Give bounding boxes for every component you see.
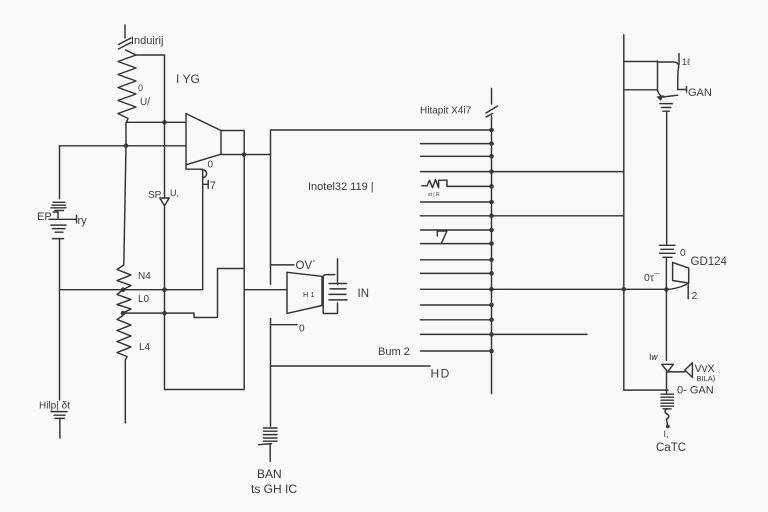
wire battery to ground bbox=[59, 239, 61, 400]
bus tick y=273.4 bbox=[421, 272, 492, 274]
svg-text:HD: HD bbox=[431, 367, 451, 381]
svg-text:0: 0 bbox=[208, 160, 214, 171]
svg-text:U/: U/ bbox=[140, 97, 150, 108]
wire U2 input segment y=290 bbox=[244, 289, 287, 291]
wire OV stub bbox=[271, 264, 295, 266]
bus tick y=319.8 bbox=[421, 319, 492, 321]
inductor L5 bottom middle bbox=[259, 428, 278, 462]
node junction dot bbox=[162, 120, 167, 125]
battery B1 bbox=[49, 202, 77, 238]
op-amp U1 bbox=[186, 114, 221, 165]
bus tick y=334.4 long right bbox=[421, 333, 588, 335]
ground under Q1 bbox=[660, 104, 673, 112]
wire staircase y=313 to box right edge bbox=[123, 269, 244, 318]
svg-text:ts GH IC: ts GH IC bbox=[251, 482, 297, 496]
bus tick y=351 bbox=[421, 350, 492, 352]
wire from R1 top peak to vertical feed bbox=[136, 55, 165, 122]
svg-text:N4: N4 bbox=[138, 271, 151, 282]
svg-text:SP: SP bbox=[148, 190, 162, 201]
wire horizontal y=122 to U1 input bbox=[127, 121, 187, 123]
bus tick y=259.8 bbox=[421, 259, 492, 261]
wire Q1 down to C2 bbox=[666, 112, 668, 245]
svg-text:IN: IN bbox=[358, 288, 370, 300]
slash 17 mark bbox=[437, 231, 447, 243]
wire C2 to node bbox=[665, 259, 667, 361]
svg-text:BAN: BAN bbox=[257, 467, 282, 481]
bus tick y=243.6 bbox=[421, 243, 492, 245]
bus tick y=143.6 bbox=[421, 143, 492, 145]
bus tick y=156.3 bbox=[421, 155, 492, 157]
svg-text:0- GAN: 0- GAN bbox=[677, 385, 714, 397]
svg-text:ry: ry bbox=[78, 215, 88, 227]
svg-text:0: 0 bbox=[680, 248, 686, 259]
pin lead with circle below U1 bbox=[186, 165, 208, 290]
transistor Q1 bbox=[658, 54, 687, 98]
svg-text:Induirij: Induirij bbox=[131, 35, 163, 47]
bus tick y=171.6 long to right section bbox=[421, 171, 624, 173]
node dot at x=623.8 on y=289 bbox=[622, 287, 627, 292]
wire horizontal y=290 bbox=[60, 289, 202, 291]
node junction dot bbox=[124, 144, 129, 149]
wire Q1 base feeds bbox=[624, 62, 658, 90]
waveform glyph W1 on tick y=186.4 bbox=[422, 180, 492, 188]
wire lower x=270.5 vertical bbox=[270, 319, 272, 427]
resistor R1 bbox=[118, 50, 136, 122]
wire HD line bbox=[271, 365, 431, 367]
wire feedback box bottom and right edge bbox=[165, 155, 245, 390]
node dots on bus bbox=[489, 128, 494, 354]
op-amp U2 bbox=[287, 272, 322, 313]
svg-text:0: 0 bbox=[299, 324, 305, 335]
wire D1 to speaker bbox=[668, 371, 685, 373]
svg-text:I𝑤: I𝑤 bbox=[649, 352, 659, 362]
capacitor C1 bracket bbox=[323, 259, 347, 314]
diode D1 bbox=[662, 364, 674, 372]
svg-text:st | R: st | R bbox=[428, 192, 440, 198]
svg-text:2: 2 bbox=[692, 290, 698, 302]
svg-text:0τ¯: 0τ¯ bbox=[644, 272, 660, 284]
svg-text:Hilp| δt: Hilp| δt bbox=[39, 401, 70, 412]
svg-text:H 1: H 1 bbox=[303, 290, 315, 299]
node terminal dot R5 bbox=[666, 425, 670, 429]
svg-text:BILA): BILA) bbox=[697, 374, 716, 383]
node dots on y=313 bbox=[121, 311, 126, 316]
svg-text:Hitapit X4i7: Hitapit X4i7 bbox=[420, 106, 472, 117]
svg-text:I,: I, bbox=[664, 429, 669, 439]
svg-text:U,: U, bbox=[170, 188, 179, 198]
node output junction dot bbox=[242, 152, 247, 157]
wire horizontal y=146 battery line to U1 input bbox=[60, 145, 187, 147]
svg-text:CaTC: CaTC bbox=[656, 442, 686, 454]
svg-text:GD124: GD124 bbox=[691, 256, 728, 268]
bus tick y=215.8 long to right section bbox=[421, 215, 624, 217]
svg-text:0: 0 bbox=[138, 83, 143, 93]
bus tick y=305 bbox=[421, 304, 492, 306]
wire R1 bottom down to R2 bbox=[124, 122, 126, 265]
ground (Hilp dt) bbox=[51, 412, 67, 438]
node dot at x=666.4 on y=289 bbox=[664, 287, 669, 292]
transistor Q2 GD124 bbox=[666, 262, 688, 298]
resistor R3 L0 bbox=[117, 290, 131, 313]
svg-text:L4: L4 bbox=[139, 342, 151, 353]
bus tick y=230 bbox=[421, 229, 492, 231]
wire left down to battery bbox=[59, 146, 61, 199]
svg-text:7: 7 bbox=[210, 180, 216, 192]
wire right main vertical x=623.8 bbox=[624, 35, 668, 390]
svg-text:OV´: OV´ bbox=[296, 260, 316, 272]
op-amp U1 output box bbox=[221, 131, 244, 155]
svg-text:Inotel32 119 |: Inotel32 119 | bbox=[308, 181, 374, 193]
svg-text:GAN: GAN bbox=[688, 87, 712, 99]
resistor R5 coil bbox=[661, 394, 674, 425]
wire D1 node vertical bbox=[666, 372, 668, 394]
svg-text:EP: EP bbox=[37, 211, 52, 223]
wire long top line y=130 and left vertical x=270.5 bbox=[271, 130, 492, 284]
node dots on y=290 bbox=[121, 287, 126, 292]
bus tick y=202 bbox=[421, 201, 492, 203]
svg-text:L0: L0 bbox=[138, 294, 150, 305]
capacitor C2 bbox=[660, 245, 676, 257]
wire output line y=154.5 bbox=[221, 154, 271, 156]
wire SP down to box bottom bbox=[164, 206, 166, 390]
bus tick y=289 long to GD124 node bbox=[421, 288, 667, 290]
resistor R4 L4 bbox=[117, 313, 131, 423]
wire 0 stub bbox=[271, 324, 298, 326]
node SP arrow bbox=[160, 198, 169, 206]
wire break mark at top of R1 bbox=[119, 25, 132, 49]
svg-text:1ℓ: 1ℓ bbox=[682, 57, 691, 67]
arrow head Q1 emitter bbox=[657, 95, 665, 101]
speaker VvX bbox=[685, 363, 693, 378]
wire SP node vertical bbox=[164, 122, 166, 198]
bus top lead and break bbox=[486, 89, 498, 118]
bus vertical bbox=[491, 116, 493, 394]
resistor R2 N4 bbox=[117, 265, 131, 290]
svg-text:I YG: I YG bbox=[176, 72, 200, 86]
svg-text:Bum 2: Bum 2 bbox=[378, 346, 410, 358]
